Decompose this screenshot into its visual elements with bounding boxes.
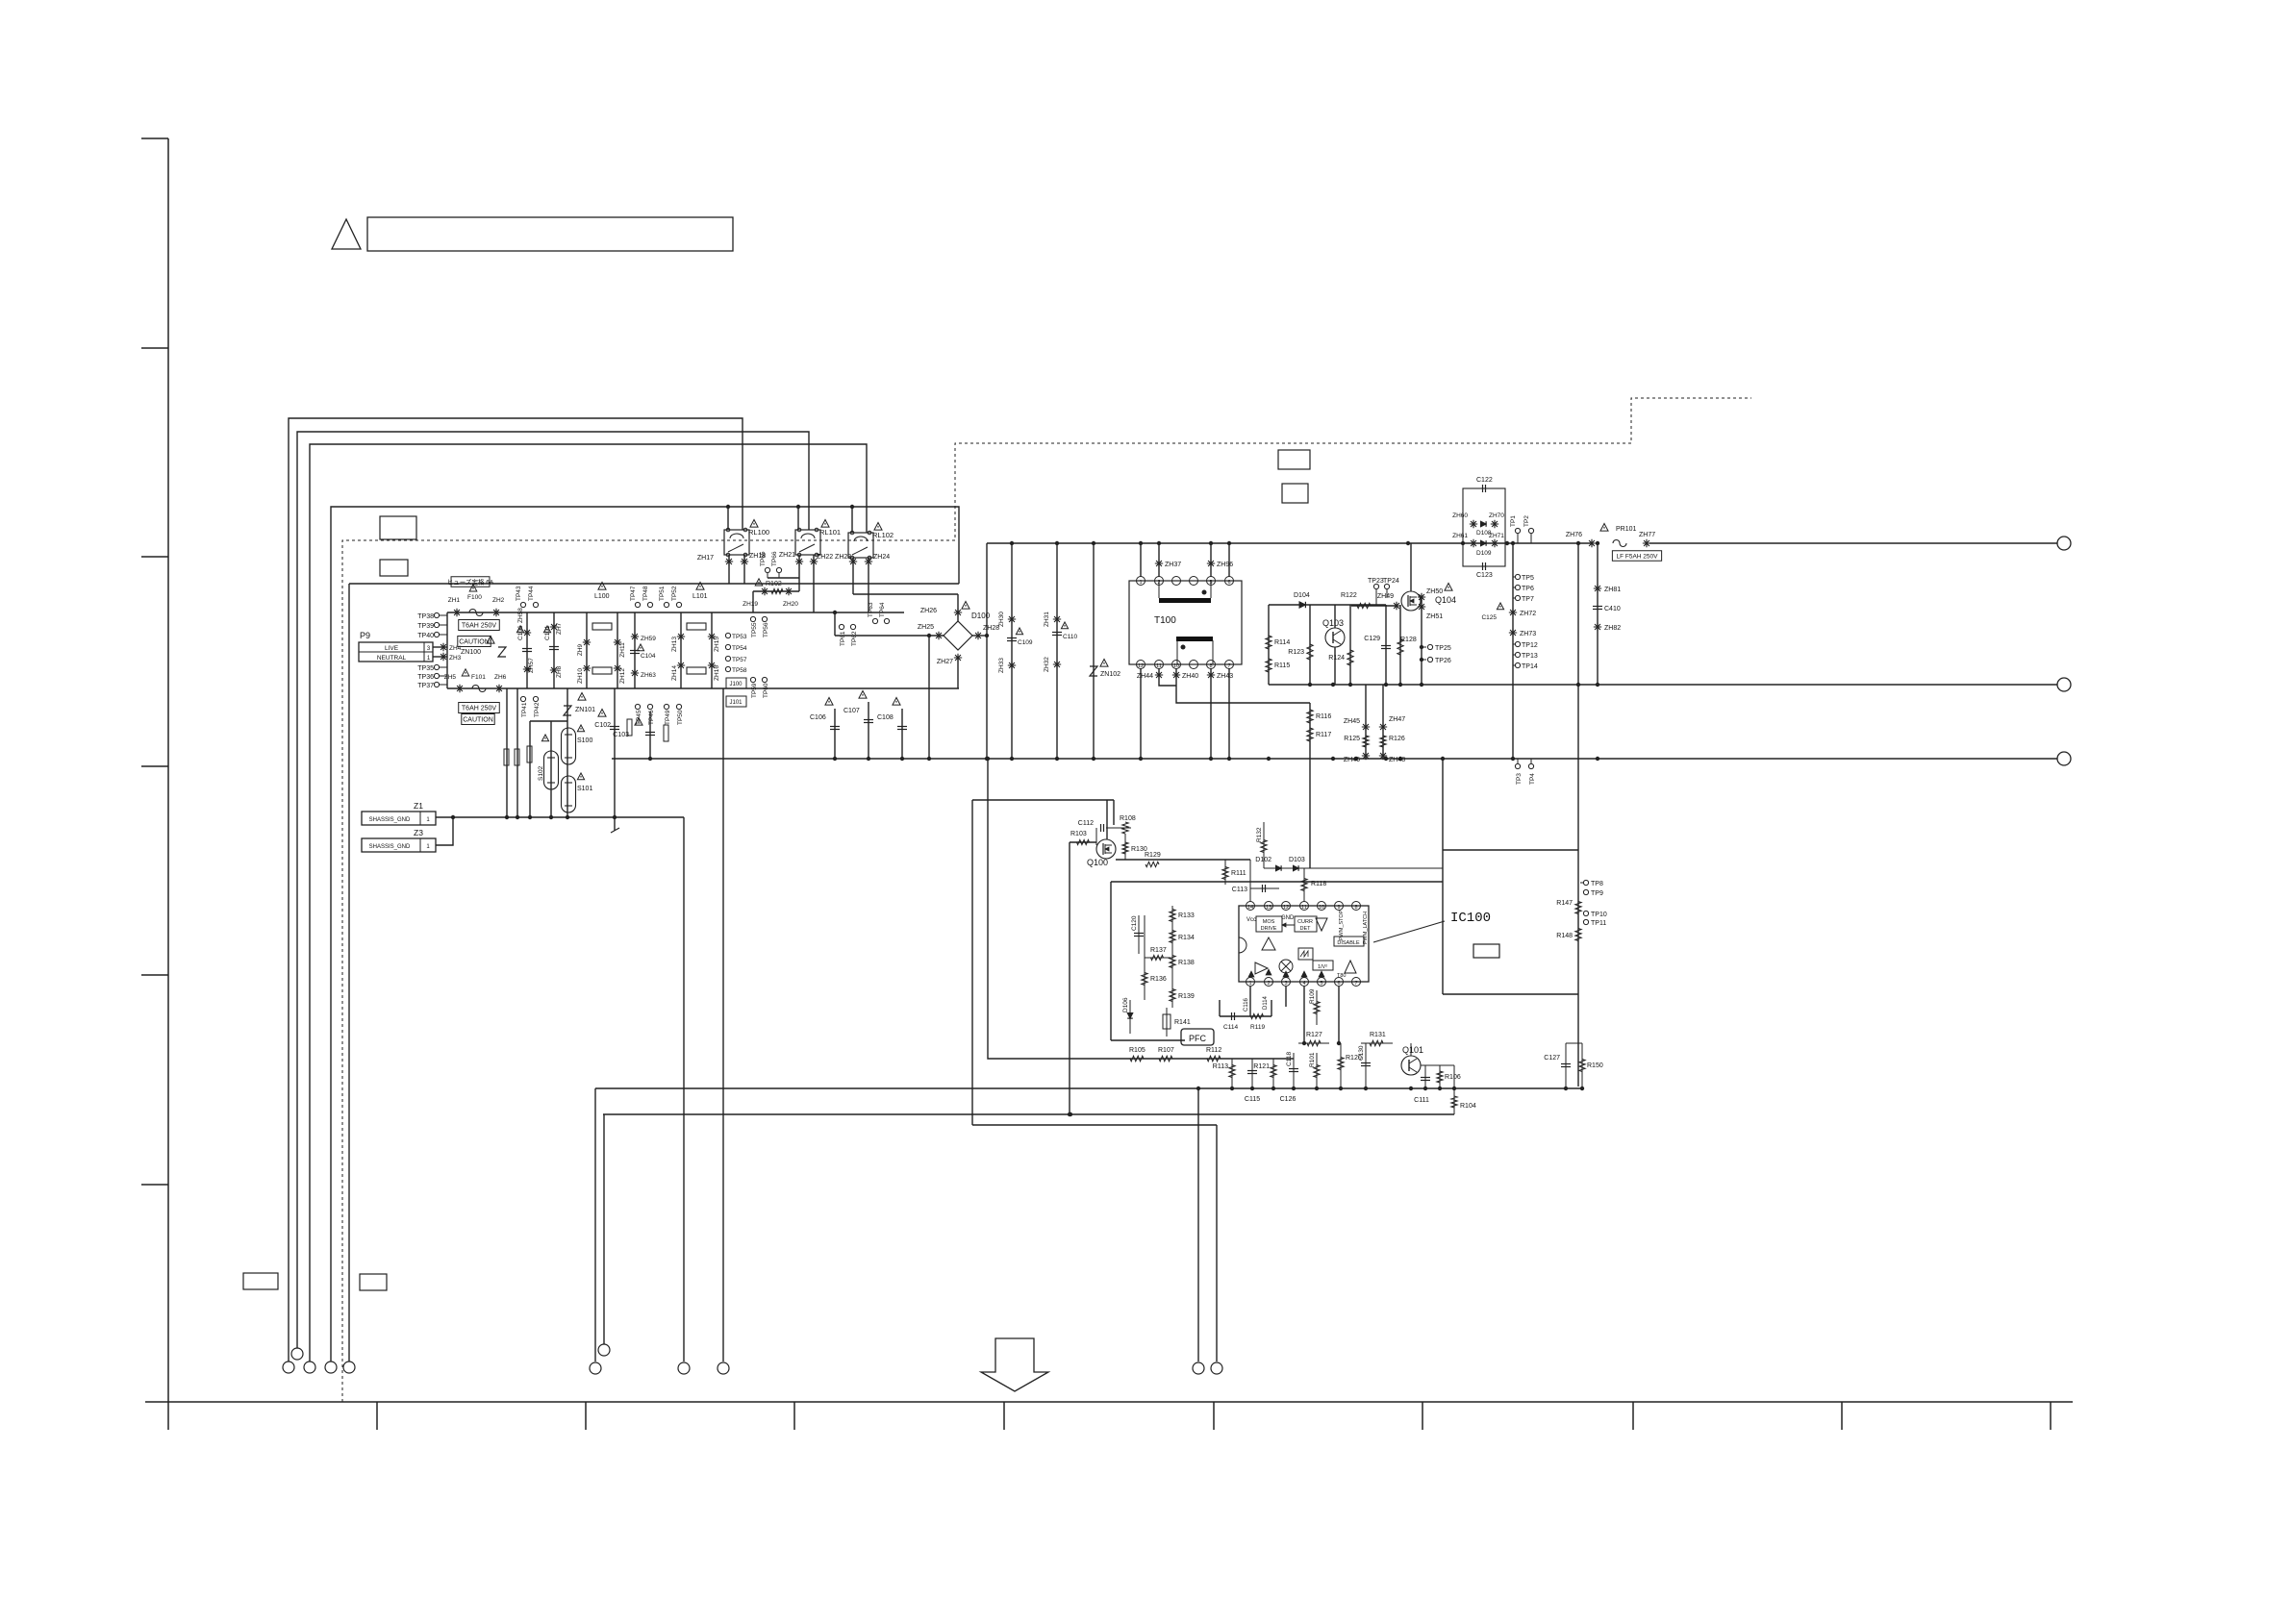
- fuse PR101: [1600, 524, 1608, 532]
- svg-text:ZH63: ZH63: [641, 672, 656, 679]
- svg-text:TP23: TP23: [1368, 578, 1384, 585]
- svg-text:ZH57: ZH57: [528, 658, 535, 673]
- svg-text:TP60: TP60: [763, 683, 769, 698]
- resistor R120: [1340, 1043, 1342, 1088]
- svg-text:R105: R105: [1129, 1047, 1145, 1054]
- svg-text:TP7: TP7: [1522, 596, 1534, 603]
- svg-text:6: 6: [1227, 580, 1230, 586]
- spark gap ZH18: [741, 558, 748, 565]
- spark gap ZH96: [1210, 543, 1212, 577]
- resistor R109: [1316, 990, 1318, 1025]
- svg-text:P9: P9: [360, 631, 370, 640]
- bridge rectifier D100: [944, 621, 972, 650]
- svg-text:ZN102: ZN102: [1100, 671, 1120, 678]
- resistor R101: [1316, 1053, 1318, 1088]
- svg-text:ZH77: ZH77: [1639, 532, 1655, 538]
- resistor R134: [1171, 925, 1173, 950]
- spark gap ZH49: [1393, 602, 1400, 610]
- svg-text:ZH44: ZH44: [1137, 673, 1153, 680]
- svg-text:ZH73: ZH73: [1520, 631, 1536, 637]
- svg-text:ヒューズ定格 6A: ヒューズ定格 6A: [447, 577, 494, 586]
- connector P9: [359, 642, 433, 662]
- spark gap ZH3: [433, 656, 447, 658]
- test points TP43 TP44: [520, 602, 525, 607]
- drawing frame bottom ruler: [145, 1401, 2073, 1403]
- label box E: [243, 1273, 278, 1289]
- surge arrester S102: [550, 721, 552, 817]
- wire loop net4 relay supply: [331, 507, 959, 1362]
- svg-text:TP6: TP6: [1522, 586, 1534, 592]
- svg-text:TP39: TP39: [417, 623, 434, 630]
- svg-text:TP46: TP46: [648, 710, 655, 725]
- svg-text:TP24: TP24: [1383, 578, 1399, 585]
- jumper J101: [726, 696, 746, 707]
- svg-text:F101: F101: [471, 674, 486, 681]
- resistor R150: [1581, 1043, 1583, 1088]
- dashed interlock line: [342, 398, 1751, 1402]
- capacitor C123: [1482, 562, 1484, 570]
- svg-text:ZH27: ZH27: [937, 659, 953, 665]
- ground drop wire B: [722, 688, 724, 1362]
- svg-text:C410: C410: [1604, 606, 1621, 612]
- IC pin4 stub: [1303, 987, 1305, 1043]
- spark gap ZH26: [954, 609, 962, 616]
- svg-text:2: 2: [1267, 981, 1270, 987]
- test points TP41 TP42: [520, 696, 525, 701]
- spark gap ZH51: [1418, 603, 1425, 611]
- sense column TP5-TP14: [1512, 543, 1514, 759]
- svg-text:R123: R123: [1288, 649, 1304, 656]
- warning triangle legend symbol: [332, 219, 361, 249]
- connector pin circle A: [678, 1362, 690, 1374]
- svg-text:ZH71: ZH71: [1489, 533, 1504, 539]
- svg-text:ZH81: ZH81: [1604, 587, 1621, 593]
- svg-text:ZH48: ZH48: [1389, 757, 1405, 763]
- surge arrester branch link: [530, 720, 567, 722]
- svg-text:Q104: Q104: [1435, 595, 1456, 605]
- svg-text:J101: J101: [729, 700, 743, 706]
- svg-text:IC100: IC100: [1450, 911, 1491, 926]
- resistor R108: [1122, 822, 1128, 834]
- svg-text:L100: L100: [594, 593, 610, 600]
- svg-text:TP52: TP52: [671, 586, 678, 601]
- svg-text:TP9: TP9: [1591, 890, 1603, 897]
- svg-text:C111: C111: [1414, 1097, 1429, 1104]
- gate drive vertical: [1069, 842, 1070, 1114]
- test points TP1 TP2: [1515, 528, 1520, 533]
- svg-text:C125: C125: [1481, 614, 1497, 621]
- vertical right of PFC: [1442, 759, 1444, 994]
- svg-text:ZH24: ZH24: [873, 554, 890, 561]
- relay RL101: [795, 530, 820, 555]
- svg-text:TP10: TP10: [1591, 912, 1607, 918]
- svg-text:C103: C103: [613, 732, 629, 738]
- diode D108 with ZH60 ZH70: [1470, 520, 1477, 528]
- resistor R124: [1349, 605, 1351, 685]
- svg-text:R129: R129: [1145, 852, 1161, 859]
- svg-text:ZH5: ZH5: [444, 674, 457, 681]
- svg-text:PWM_LATCH: PWM_LATCH: [1363, 912, 1369, 944]
- resistor R133: [1171, 906, 1173, 925]
- connector pin circle F: [598, 1344, 610, 1356]
- svg-text:TP41: TP41: [521, 702, 528, 717]
- svg-text:D100: D100: [971, 612, 991, 620]
- test points TP61 TP62: [839, 624, 843, 629]
- bridge left wire: [835, 635, 944, 637]
- svg-text:ZH1: ZH1: [448, 597, 461, 604]
- svg-text:5: 5: [1320, 981, 1322, 987]
- bridge negative lead: [928, 636, 930, 759]
- connector pin circle G: [1193, 1362, 1204, 1374]
- svg-text:R133: R133: [1178, 912, 1195, 919]
- svg-text:ZH59: ZH59: [641, 636, 656, 642]
- svg-text:ZH8: ZH8: [556, 665, 563, 678]
- svg-text:RL101: RL101: [819, 528, 841, 537]
- svg-text:LIVE: LIVE: [385, 645, 399, 652]
- svg-text:C129: C129: [1364, 636, 1380, 642]
- HV positive bus: [987, 542, 1592, 544]
- svg-text:R114: R114: [1274, 639, 1290, 646]
- svg-text:R119: R119: [1250, 1024, 1265, 1031]
- svg-text:TP65: TP65: [760, 551, 767, 566]
- svg-text:TP55: TP55: [751, 622, 758, 637]
- capacitor C111: [1424, 1065, 1426, 1088]
- label box D: [1282, 484, 1308, 503]
- svg-text:1: 1: [1139, 580, 1142, 586]
- svg-text:TP51: TP51: [659, 586, 666, 601]
- svg-text:R101: R101: [1309, 1052, 1316, 1067]
- spark gap ZH4: [433, 646, 447, 648]
- svg-text:CAUTION: CAUTION: [463, 717, 493, 724]
- test points TP3 TP4: [1515, 763, 1520, 768]
- connector pin circles bottom-left: [283, 1362, 294, 1373]
- svg-text:SHASSIS_GND: SHASSIS_GND: [369, 844, 411, 850]
- svg-text:ZH26: ZH26: [920, 608, 937, 614]
- wire loop net2: [297, 432, 809, 1348]
- svg-text:R141: R141: [1174, 1019, 1191, 1026]
- svg-text:ZH33: ZH33: [998, 658, 1005, 673]
- resistor R127: [1298, 1042, 1329, 1044]
- svg-text:TP4: TP4: [1529, 773, 1536, 785]
- svg-text:PFC: PFC: [1189, 1034, 1207, 1043]
- bleeder resistor 2: [664, 725, 668, 741]
- svg-text:ZH16: ZH16: [714, 665, 720, 681]
- svg-text:ZH49: ZH49: [1377, 593, 1394, 600]
- svg-text:TP5: TP5: [1522, 575, 1534, 582]
- spark gap ZH21: [795, 558, 803, 565]
- svg-text:ZH40: ZH40: [1182, 673, 1198, 680]
- capacitor C103: [649, 712, 651, 759]
- resistor R128: [1399, 605, 1401, 685]
- capacitor C106: [834, 709, 836, 759]
- svg-text:R106: R106: [1445, 1074, 1461, 1081]
- resistor R132: [1263, 822, 1265, 868]
- svg-text:C104: C104: [641, 653, 656, 660]
- resistor R103: [1070, 841, 1096, 843]
- svg-text:ZH20: ZH20: [783, 601, 798, 608]
- resistor R138: [1171, 950, 1173, 973]
- resistor R130: [1124, 834, 1126, 860]
- resistor R121: [1272, 1059, 1274, 1088]
- controller IC100: [1239, 906, 1369, 982]
- svg-text:RL100: RL100: [748, 528, 769, 537]
- feed wire D104: [1269, 604, 1386, 606]
- test points TP45 TP46 TP49 TP50: [635, 704, 640, 709]
- svg-text:TP37: TP37: [417, 683, 434, 689]
- svg-text:C120: C120: [1131, 915, 1138, 931]
- svg-text:R147: R147: [1556, 900, 1573, 907]
- svg-text:ZH76: ZH76: [1566, 532, 1582, 538]
- svg-text:TP13: TP13: [1522, 653, 1538, 660]
- PFC second rail: [603, 1113, 1454, 1115]
- svg-text:C127: C127: [1544, 1055, 1560, 1062]
- svg-text:ZH22 ZH23: ZH22 ZH23: [817, 554, 851, 561]
- test points TP23 TP24: [1373, 584, 1378, 588]
- svg-text:12: 12: [1283, 905, 1289, 911]
- spark gap cluster ZH45-ZH48 R125 R126: [1365, 685, 1367, 759]
- svg-text:TP1: TP1: [1510, 515, 1517, 527]
- resistor R131: [1361, 1042, 1393, 1044]
- svg-text:C107: C107: [843, 708, 860, 714]
- svg-text:TP59: TP59: [751, 683, 758, 698]
- svg-text:GND: GND: [1281, 915, 1295, 921]
- column ZH31 C110 ZH32: [1056, 543, 1058, 759]
- svg-text:TP47: TP47: [630, 586, 637, 601]
- bleeder resistor: [627, 719, 632, 736]
- svg-text:L101: L101: [692, 593, 708, 600]
- svg-text:1/V²: 1/V²: [1318, 964, 1327, 970]
- transformer T100: [1129, 581, 1242, 664]
- svg-text:TP63: TP63: [868, 602, 874, 617]
- sense divider R147 R148 TP8-TP11: [1577, 877, 1579, 933]
- svg-text:C113: C113: [1232, 887, 1247, 893]
- capacitor C108: [901, 709, 903, 759]
- svg-text:TP14: TP14: [1522, 663, 1538, 670]
- test points TP59 TP60: [750, 677, 755, 682]
- svg-text:TP38: TP38: [417, 613, 434, 620]
- svg-text:F100: F100: [467, 594, 482, 601]
- svg-text:SHASSIS_GND: SHASSIS_GND: [369, 817, 411, 823]
- svg-text:CURR: CURR: [1297, 919, 1313, 925]
- svg-text:R115: R115: [1274, 662, 1290, 669]
- label box B: [380, 560, 408, 576]
- surge arrester S100: [562, 728, 576, 764]
- svg-text:ZH11: ZH11: [619, 642, 626, 658]
- svg-text:D102: D102: [1255, 857, 1271, 863]
- capacitor C107: [868, 702, 869, 759]
- svg-text:R124: R124: [1328, 655, 1345, 662]
- svg-text:TP35: TP35: [417, 665, 434, 672]
- svg-text:PR101: PR101: [1616, 526, 1637, 533]
- test points TP35 TP36 TP37: [434, 664, 439, 669]
- resistor R122: [1351, 605, 1397, 607]
- svg-text:D104: D104: [1294, 592, 1310, 599]
- spark gap ZH37: [1158, 543, 1160, 577]
- svg-text:ZH12: ZH12: [619, 668, 626, 684]
- svg-text:R138: R138: [1178, 960, 1195, 966]
- drive wire with R129: [1116, 859, 1250, 861]
- svg-text:ZH32: ZH32: [1044, 657, 1050, 672]
- svg-text:Z3: Z3: [414, 828, 423, 837]
- svg-text:ZH46: ZH46: [1344, 757, 1360, 763]
- AC neutral rail: [447, 687, 959, 689]
- svg-text:PWM_STOP: PWM_STOP: [1339, 910, 1345, 940]
- chassis arrow symbol: [981, 1338, 1048, 1391]
- svg-text:14: 14: [1247, 905, 1253, 911]
- test point TP25 TP26 taps: [1420, 645, 1423, 649]
- svg-text:TP62: TP62: [851, 631, 858, 646]
- svg-text:C130: C130: [1358, 1045, 1365, 1061]
- feedback resistors R116 R117: [1309, 703, 1311, 868]
- svg-text:1: 1: [1248, 981, 1251, 987]
- svg-text:ZH10: ZH10: [577, 668, 584, 684]
- connector Z1 SHASSIS_GND: [362, 812, 436, 825]
- drop to pin F: [603, 1114, 605, 1344]
- svg-text:ZH21: ZH21: [779, 552, 795, 559]
- svg-text:S101: S101: [577, 786, 592, 792]
- diode D104: [1299, 602, 1305, 608]
- svg-text:C123: C123: [1476, 572, 1493, 579]
- svg-text:T6AH 250V: T6AH 250V: [462, 623, 497, 630]
- svg-text:C108: C108: [877, 714, 894, 721]
- svg-text:ZN100: ZN100: [461, 649, 481, 656]
- output terminal top: [2057, 537, 2071, 550]
- box PFC control bottom: [1111, 1039, 1185, 1041]
- bus link vertical: [1577, 543, 1579, 1087]
- AC live rail: [447, 612, 904, 613]
- svg-text:3: 3: [1284, 981, 1287, 987]
- spark gap ZH44: [1159, 668, 1176, 686]
- capacitor C130: [1365, 1043, 1367, 1088]
- transistor Q104 MOSFET: [1401, 591, 1421, 611]
- svg-text:TP48: TP48: [642, 586, 649, 601]
- svg-text:ZH47: ZH47: [1389, 716, 1405, 723]
- svg-text:TP66: TP66: [771, 551, 778, 566]
- spark gap ZH25: [935, 632, 943, 639]
- transistor Q101: [1401, 1056, 1421, 1075]
- svg-text:R117: R117: [1316, 732, 1331, 738]
- svg-text:R121: R121: [1253, 1063, 1270, 1070]
- svg-text:R125: R125: [1344, 736, 1360, 742]
- resistor R137: [1145, 957, 1171, 959]
- svg-text:R109: R109: [1309, 988, 1316, 1004]
- spark gap ZH40: [1176, 668, 1310, 703]
- svg-text:R137: R137: [1150, 947, 1167, 954]
- diode D109 with ZH61 ZH71: [1470, 539, 1477, 547]
- svg-text:Vcc: Vcc: [1246, 917, 1256, 923]
- spark gap ZH22 ZH23: [810, 558, 818, 565]
- svg-text:J100: J100: [729, 682, 743, 687]
- resistor R113: [1231, 1059, 1233, 1088]
- svg-text:R148: R148: [1556, 933, 1573, 939]
- svg-text:CAUTION: CAUTION: [459, 639, 490, 646]
- svg-text:ZH31: ZH31: [1044, 612, 1050, 627]
- resistor R139: [1171, 973, 1173, 1008]
- test points TP38 TP39 TP40: [434, 612, 439, 617]
- sense return rail: [972, 1124, 1217, 1126]
- svg-text:13: 13: [1266, 905, 1271, 911]
- svg-text:TP64: TP64: [879, 602, 886, 617]
- fuse F100: [453, 609, 461, 616]
- svg-text:T80: T80: [1337, 973, 1346, 979]
- svg-text:TP26: TP26: [1435, 658, 1451, 664]
- relay RL100: [724, 530, 749, 555]
- IC pin1 stub with C116 D114: [1249, 987, 1251, 1016]
- test points TP55 TP56: [750, 616, 755, 621]
- svg-text:TP61: TP61: [840, 631, 846, 646]
- svg-text:C102: C102: [594, 722, 611, 729]
- column ZH58 C106 ZH57: [526, 612, 528, 688]
- relay RL102: [848, 533, 873, 558]
- svg-text:C109: C109: [1018, 639, 1033, 646]
- relay output drops: [728, 555, 730, 584]
- svg-text:ZH50: ZH50: [1426, 588, 1443, 595]
- svg-text:TP2: TP2: [1523, 515, 1530, 527]
- resistor R141: [1166, 1008, 1168, 1037]
- line filter choke L100: [598, 583, 606, 590]
- svg-text:Z1: Z1: [414, 801, 423, 811]
- resistor R106: [1439, 1065, 1441, 1088]
- svg-text:ZH9: ZH9: [577, 643, 584, 656]
- svg-text:TP50: TP50: [677, 710, 684, 725]
- sense wire drop: [988, 759, 1294, 1059]
- secondary output wire: [1269, 684, 2057, 686]
- primary enclosure box top: [349, 583, 959, 585]
- ground link wire: [436, 817, 453, 845]
- HV return bus: [612, 758, 2057, 760]
- svg-text:RL102: RL102: [872, 531, 894, 539]
- svg-text:8: 8: [1354, 905, 1357, 911]
- drop to pin E: [594, 1088, 596, 1362]
- svg-text:TP40: TP40: [417, 633, 434, 639]
- svg-text:TP12: TP12: [1522, 642, 1538, 649]
- svg-text:R108: R108: [1120, 815, 1136, 822]
- svg-text:11: 11: [1301, 905, 1307, 911]
- ground drop wire A: [683, 817, 685, 1362]
- svg-text:T6AH 250V: T6AH 250V: [462, 706, 497, 712]
- capacitor C129: [1385, 605, 1387, 685]
- box PFC control left: [1110, 882, 1112, 1040]
- IC pin3 stub: [1285, 987, 1287, 1007]
- svg-text:TP44: TP44: [528, 586, 535, 601]
- column ZH30 C109 ZH33: [1011, 543, 1013, 759]
- AC input vertical: [446, 612, 448, 688]
- bridge bottom wire: [957, 658, 959, 688]
- resistor R102 with spark gaps ZH19 ZH20: [753, 590, 799, 592]
- svg-text:R139: R139: [1178, 993, 1195, 1000]
- svg-text:ZH14: ZH14: [671, 665, 678, 681]
- drop to pin H: [1216, 1125, 1218, 1362]
- svg-text:S100: S100: [577, 737, 592, 744]
- test point TP65: [765, 567, 769, 572]
- primary feed wires: [1140, 543, 1142, 577]
- chassis ground rail: [436, 816, 684, 818]
- zener ZN101: [566, 688, 568, 817]
- svg-text:7: 7: [1354, 981, 1357, 987]
- test points TP53 TP54 TP57 TP58: [725, 633, 730, 637]
- svg-text:TP49: TP49: [665, 710, 671, 725]
- bridge right wire: [972, 635, 987, 637]
- transistor Q100 MOSFET: [1096, 839, 1116, 859]
- svg-text:ZH58: ZH58: [517, 608, 524, 623]
- svg-text:C115: C115: [1245, 1096, 1260, 1103]
- svg-text:ZH30: ZH30: [998, 612, 1005, 627]
- capacitor C127: [1565, 1043, 1567, 1088]
- svg-text:C116: C116: [1244, 997, 1249, 1012]
- link to right edge: [1443, 849, 1578, 851]
- capacitor C113: [1250, 887, 1279, 889]
- svg-text:S102: S102: [538, 765, 544, 781]
